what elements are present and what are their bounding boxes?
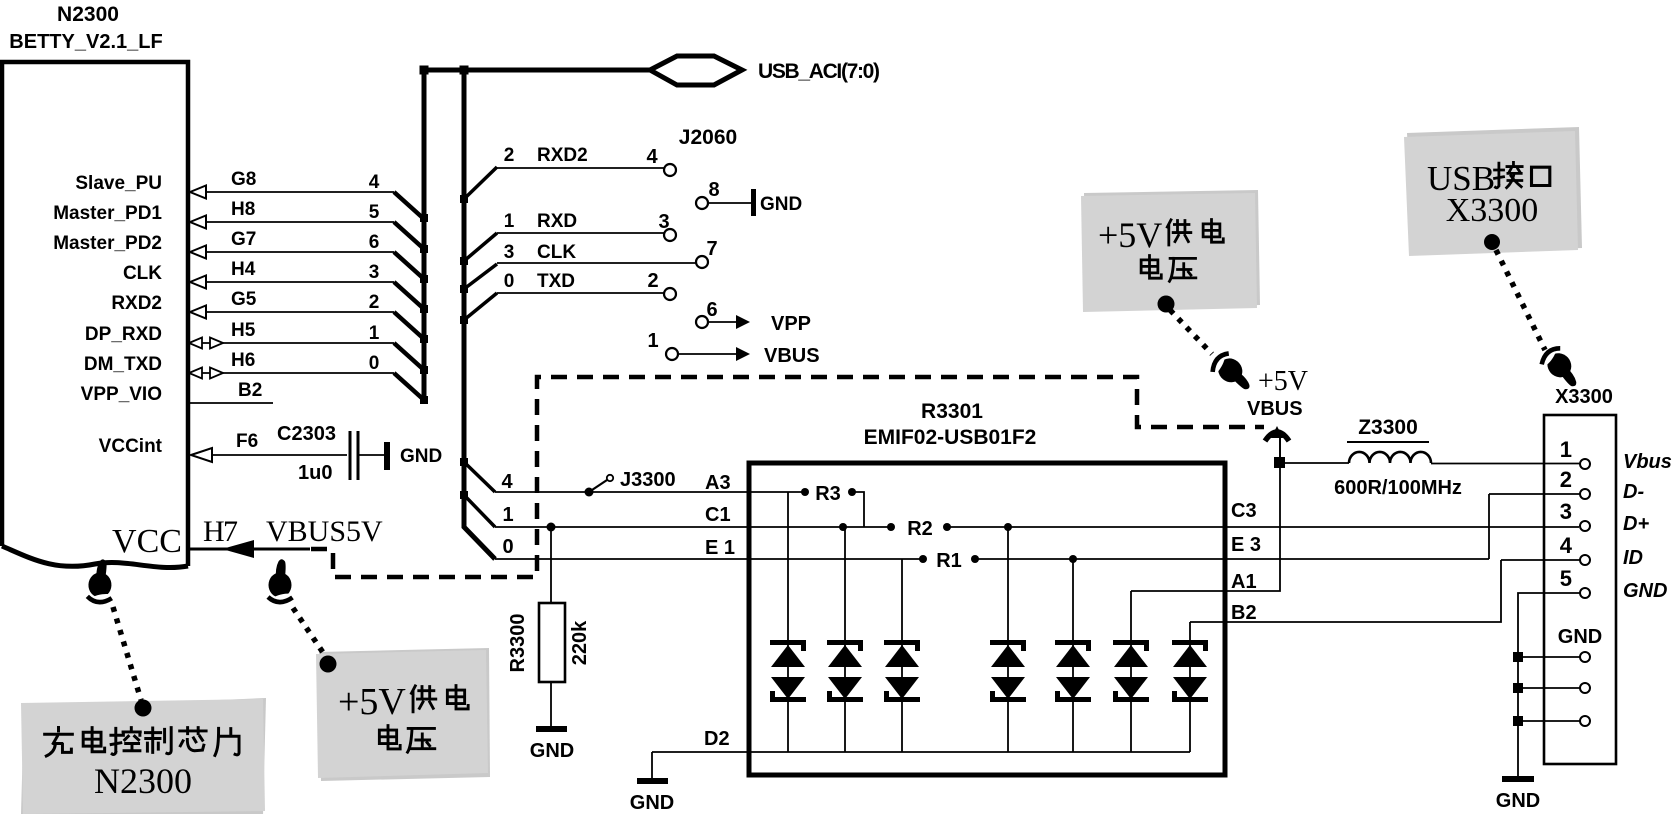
- capacitor C2303 plates: [349, 431, 352, 480]
- junction dot to R3300: [547, 523, 556, 532]
- bus junction line1 y=339: [420, 335, 428, 343]
- svg-text:D-: D-: [1623, 481, 1644, 503]
- svg-text:B2: B2: [1231, 602, 1257, 624]
- J2060 pin 3: [664, 229, 676, 241]
- bus junction line1 y=279: [420, 275, 428, 283]
- callout box: +5V supply voltage (lower): [319, 648, 490, 781]
- tap diagonal bit 0 (TXD): [464, 293, 497, 320]
- svg-text:H6: H6: [231, 350, 255, 371]
- svg-text:4: 4: [501, 471, 513, 493]
- internal C1/C3 row + R2: [749, 526, 891, 528]
- svg-text:A1: A1: [1231, 571, 1257, 593]
- TVS diode pair column 2: [827, 527, 863, 752]
- wire E3 to pin2 D-: [1488, 494, 1490, 559]
- svg-text:B2: B2: [238, 380, 262, 401]
- svg-text:+5V: +5V: [1258, 366, 1308, 397]
- svg-text:C2303: C2303: [277, 423, 336, 445]
- pin G8 wire: [190, 191, 394, 193]
- TVS diode pair column 5: [1055, 559, 1091, 752]
- svg-text:VPP_VIO: VPP_VIO: [81, 384, 162, 405]
- svg-text:0: 0: [369, 353, 380, 374]
- svg-text:C1: C1: [705, 504, 731, 526]
- svg-text:R3301: R3301: [921, 400, 983, 423]
- pointing hand cursor (points to +5V VBUS net): [1205, 349, 1257, 399]
- wire CLK to J2060 pin7: [497, 262, 696, 264]
- wire J2060 pin8 to GND: [709, 202, 752, 204]
- svg-text:X3300: X3300: [1446, 192, 1539, 229]
- bus junction line1 y=218: [420, 214, 428, 222]
- svg-text:X3300: X3300: [1555, 386, 1613, 408]
- internal A3 row + R3: [749, 491, 805, 493]
- D2 row wire: [652, 751, 1190, 753]
- wire TXD to J2060 pin2: [497, 292, 664, 294]
- svg-text:H4: H4: [231, 259, 256, 280]
- connector X3300 box: [1544, 415, 1616, 764]
- svg-text:7: 7: [706, 238, 717, 260]
- pointing hand cursor (points to VBUS5V +5V): [268, 559, 296, 604]
- wire J2060 pin1 to VBUS: [679, 353, 740, 355]
- J2060 pin 6: [696, 316, 708, 328]
- svg-text:Slave_PU: Slave_PU: [75, 173, 162, 194]
- svg-text:E 1: E 1: [705, 537, 735, 559]
- J2060 pin 1: [666, 348, 678, 360]
- VCCint input arrowhead: [191, 448, 212, 462]
- svg-text:VBUS: VBUS: [1247, 398, 1303, 420]
- svg-text:E 3: E 3: [1231, 534, 1261, 556]
- svg-text:R2: R2: [907, 518, 933, 540]
- svg-text:4: 4: [369, 172, 380, 193]
- svg-text:DM_TXD: DM_TXD: [84, 354, 162, 375]
- callout text 充电控制芯片: [45, 727, 73, 756]
- svg-text:220k: 220k: [569, 620, 591, 665]
- IC R3301 box: [749, 463, 1225, 775]
- input arrowhead at Master_PD1: [190, 216, 206, 229]
- svg-text:GND: GND: [530, 740, 574, 762]
- svg-text:G7: G7: [231, 229, 256, 250]
- tap diagonal bit 3 (CLK): [464, 264, 497, 289]
- wire RXD to J2060 pin3: [497, 232, 664, 234]
- pointing hand cursor (points to X3300 connector): [1535, 343, 1586, 395]
- input arrowhead at Master_PD2: [190, 246, 206, 259]
- svg-text:3: 3: [1560, 499, 1572, 524]
- TVS diode pair column 7: [1172, 622, 1208, 752]
- svg-text:Vbus: Vbus: [1623, 451, 1672, 473]
- wire VBUS to Z3300: [1280, 462, 1349, 464]
- TVS diode pair column 6: [1113, 591, 1149, 752]
- GND bar (C2303): [384, 442, 390, 470]
- X3300 pin 3 (D+): [1580, 521, 1590, 531]
- svg-text:3: 3: [369, 262, 380, 283]
- wire E1 row: [495, 558, 749, 560]
- GND bar (R3300): [536, 726, 567, 732]
- bus entry diagonal for bit 0: [394, 373, 424, 400]
- svg-text:3: 3: [504, 242, 515, 263]
- svg-text:1: 1: [647, 330, 658, 352]
- svg-text:RXD2: RXD2: [111, 293, 162, 314]
- svg-text:J3300: J3300: [620, 469, 676, 491]
- jumper J3300 junction dot: [585, 488, 594, 497]
- J2060 pin 4: [664, 164, 676, 176]
- bus junction line1 y=370: [420, 366, 428, 374]
- callout dotted line 4: [1496, 250, 1545, 350]
- svg-text:C3: C3: [1231, 500, 1257, 522]
- X3300 shield GND pin y=657: [1513, 652, 1523, 662]
- bus name flag USB_ACI(7:0): [650, 56, 742, 85]
- bus entry diagonal for bit 4: [394, 192, 424, 219]
- svg-text:D+: D+: [1623, 513, 1649, 535]
- svg-text:1: 1: [1560, 437, 1572, 462]
- bus segment line 1: [422, 68, 427, 403]
- svg-text:8: 8: [708, 179, 719, 201]
- svg-text:BETTY_V2.1_LF: BETTY_V2.1_LF: [9, 31, 162, 53]
- input arrowhead at RXD2: [190, 306, 206, 319]
- svg-text:TXD: TXD: [537, 271, 575, 292]
- svg-text:5: 5: [369, 202, 380, 223]
- X3300 pin 1 (Vbus): [1580, 459, 1590, 469]
- GND bar (J2060 pin8): [751, 189, 756, 216]
- callout dot 3: [1158, 296, 1175, 313]
- inductor Z3300 coil: [1349, 452, 1431, 463]
- svg-text:H7: H7: [203, 515, 238, 548]
- svg-text:N2300: N2300: [57, 3, 119, 26]
- svg-text:VPP: VPP: [771, 313, 811, 335]
- VBUS vertical wire: [1279, 437, 1281, 463]
- svg-text:1: 1: [369, 323, 380, 344]
- svg-text:R3300: R3300: [507, 614, 529, 673]
- svg-text:2: 2: [369, 292, 380, 313]
- svg-text:RXD: RXD: [537, 211, 577, 232]
- TVS diode pair column 4: [990, 527, 1026, 752]
- J2060 pin 8: [696, 197, 708, 209]
- svg-text:CLK: CLK: [123, 263, 162, 284]
- internal E1/E3 row + R1: [749, 558, 923, 560]
- VBUS arrowhead (J2060): [736, 347, 750, 361]
- VCCint wire to C2303: [212, 454, 347, 456]
- svg-text:H5: H5: [231, 320, 256, 341]
- VBUS junction square: [1274, 457, 1285, 468]
- X3300 shield GND pin y=721: [1513, 716, 1523, 726]
- svg-text:GND: GND: [400, 446, 442, 467]
- svg-text:6: 6: [706, 299, 717, 321]
- pin H4 wire: [190, 281, 394, 283]
- wire C1 row to R3300: [550, 527, 552, 603]
- callout dotted line 2: [293, 608, 326, 657]
- svg-text:5: 5: [1560, 566, 1572, 591]
- svg-text:Z3300: Z3300: [1358, 416, 1418, 439]
- svg-text:G5: G5: [231, 289, 257, 310]
- VBUS5V arrowhead: [222, 540, 254, 558]
- callout dot 2: [320, 656, 337, 673]
- dashed route arrowhead to VBUS: [1265, 432, 1289, 441]
- svg-text:VBUS: VBUS: [764, 345, 820, 367]
- svg-text:1u0: 1u0: [298, 462, 332, 484]
- TVS diode pair column 3: [884, 559, 920, 752]
- callout text 电压 (upper): [1141, 256, 1161, 279]
- callout dot 4: [1484, 234, 1500, 250]
- svg-text:G8: G8: [231, 169, 256, 190]
- chip N2300 body outline (torn bottom): [2, 62, 188, 566]
- svg-text:+5V: +5V: [1098, 215, 1162, 255]
- X3300 pin 5 (GND): [1580, 588, 1590, 598]
- pin G7 wire: [190, 251, 394, 253]
- svg-text:RXD2: RXD2: [537, 145, 588, 166]
- pin G5 wire: [190, 311, 394, 313]
- svg-text:6: 6: [369, 232, 380, 253]
- VPP_VIO stub wire: [188, 402, 273, 404]
- svg-text:USB_ACI(7:0): USB_ACI(7:0): [758, 60, 880, 83]
- wire C1 row: [495, 526, 749, 528]
- svg-text:600R/100MHz: 600R/100MHz: [1334, 477, 1462, 499]
- svg-text:GND: GND: [630, 792, 674, 814]
- pin H8 wire: [190, 221, 394, 223]
- svg-text:VBUS5V: VBUS5V: [266, 515, 383, 548]
- wire Z3300 to X3300 pin1: [1431, 463, 1580, 465]
- pin H6 wire: [190, 372, 394, 374]
- svg-text:R1: R1: [936, 550, 962, 572]
- callout box: charge control chip N2300: [21, 698, 266, 816]
- svg-text:GND: GND: [1623, 580, 1667, 602]
- svg-text:2: 2: [647, 270, 658, 292]
- wire RXD2 to J2060 pin4: [497, 167, 664, 169]
- svg-text:4: 4: [646, 146, 658, 168]
- svg-text:3: 3: [658, 211, 669, 233]
- bidir arrowheads at DP_RXD: [189, 338, 202, 349]
- callout box: +5V supply voltage (upper): [1084, 190, 1260, 309]
- GND bar (X3300): [1502, 776, 1534, 782]
- svg-text:GND: GND: [1496, 790, 1540, 812]
- wire A3 row: [495, 491, 749, 493]
- svg-text:D2: D2: [704, 728, 730, 750]
- wire J2060 pin6 to VPP: [709, 321, 740, 323]
- pin H5 wire: [190, 342, 394, 344]
- B2 row wire: [1190, 560, 1501, 622]
- bus junction at (464,70): [460, 66, 469, 75]
- svg-text:EMIF02-USB01F2: EMIF02-USB01F2: [864, 426, 1037, 449]
- jumper J3300 open contact: [589, 480, 607, 492]
- tap diagonal bit 1 (RXD): [464, 233, 497, 261]
- svg-text:J2060: J2060: [679, 126, 737, 149]
- bus junction line1 y=400: [420, 396, 428, 404]
- D2 wire down to GND: [651, 752, 653, 779]
- callout box: USB port X3300: [1407, 127, 1582, 255]
- svg-text:+5V: +5V: [338, 681, 406, 723]
- callout dotted line 3: [1170, 310, 1212, 354]
- svg-text:GND: GND: [1558, 626, 1602, 648]
- dashed VBUS routing wire: [311, 377, 1264, 577]
- X3300 shield GND pin y=688: [1513, 683, 1523, 693]
- VBUS5V wire into chip: [189, 548, 310, 551]
- bidir arrowheads at DM_TXD: [189, 368, 202, 379]
- svg-text:N2300: N2300: [94, 761, 192, 801]
- svg-text:DP_RXD: DP_RXD: [85, 324, 162, 345]
- svg-text:R3: R3: [815, 483, 841, 505]
- svg-text:H8: H8: [231, 199, 255, 220]
- bus segment line 2: [464, 68, 495, 559]
- bus junction line1 y=249: [420, 245, 428, 253]
- J2060 pin 7: [696, 256, 708, 268]
- callout text 电压 (lower): [379, 726, 400, 749]
- pointing hand cursor (points to VCC / N2300 chip): [87, 559, 117, 605]
- bus junction line1 y=309: [420, 305, 428, 313]
- tap diagonal bit 1 (lower): [464, 495, 495, 527]
- bus entry diagonal for bit 1: [394, 343, 424, 370]
- wire R3300 to GND: [550, 682, 552, 728]
- wire pin5 GND down: [1518, 593, 1580, 778]
- svg-text:F6: F6: [236, 431, 258, 452]
- svg-text:VCCint: VCCint: [99, 436, 163, 457]
- input arrowhead at Slave_PU: [190, 186, 206, 199]
- input arrowhead at CLK: [190, 276, 206, 289]
- svg-text:0: 0: [504, 271, 515, 292]
- X3300 pin 2 (D-): [1580, 489, 1590, 499]
- TVS diode pair column 1: [770, 492, 806, 752]
- bus junction at (424,70): [420, 66, 429, 75]
- J2060 pin 2: [664, 288, 676, 300]
- VPP arrowhead: [736, 315, 750, 329]
- svg-text:4: 4: [1560, 533, 1573, 558]
- X3300 pin 4 (ID): [1580, 555, 1590, 565]
- svg-text:Master_PD2: Master_PD2: [53, 233, 162, 254]
- svg-text:CLK: CLK: [537, 242, 576, 263]
- callout dotted line 1: [113, 607, 141, 700]
- bus entry diagonal for bit 3: [394, 282, 424, 309]
- tap diagonal bit 4 (lower): [464, 462, 495, 492]
- svg-text:2: 2: [504, 145, 515, 166]
- wire cap to GND: [359, 454, 385, 456]
- wire B2 to pin4 ID: [1501, 559, 1580, 561]
- svg-text:A3: A3: [705, 472, 731, 494]
- svg-text:Master_PD1: Master_PD1: [53, 203, 162, 224]
- GND bar (D2): [637, 778, 668, 784]
- A1 row wire: [1131, 437, 1280, 591]
- svg-text:2: 2: [1560, 467, 1572, 492]
- callout dot 1: [135, 700, 152, 717]
- resistor R3300 body: [539, 603, 565, 682]
- bus entry diagonal for bit 5: [394, 222, 424, 249]
- svg-text:GND: GND: [760, 194, 802, 215]
- bus entry diagonal for bit 6: [394, 252, 424, 279]
- svg-text:1: 1: [504, 211, 515, 232]
- svg-text:1: 1: [502, 504, 513, 526]
- bus entry diagonal for bit 2: [394, 312, 424, 339]
- svg-text:0: 0: [502, 536, 513, 558]
- tap diagonal bit 2 (RXD2): [464, 167, 497, 199]
- svg-text:VCC: VCC: [112, 523, 182, 560]
- svg-text:ID: ID: [1623, 547, 1643, 569]
- top bus wire: [421, 68, 650, 73]
